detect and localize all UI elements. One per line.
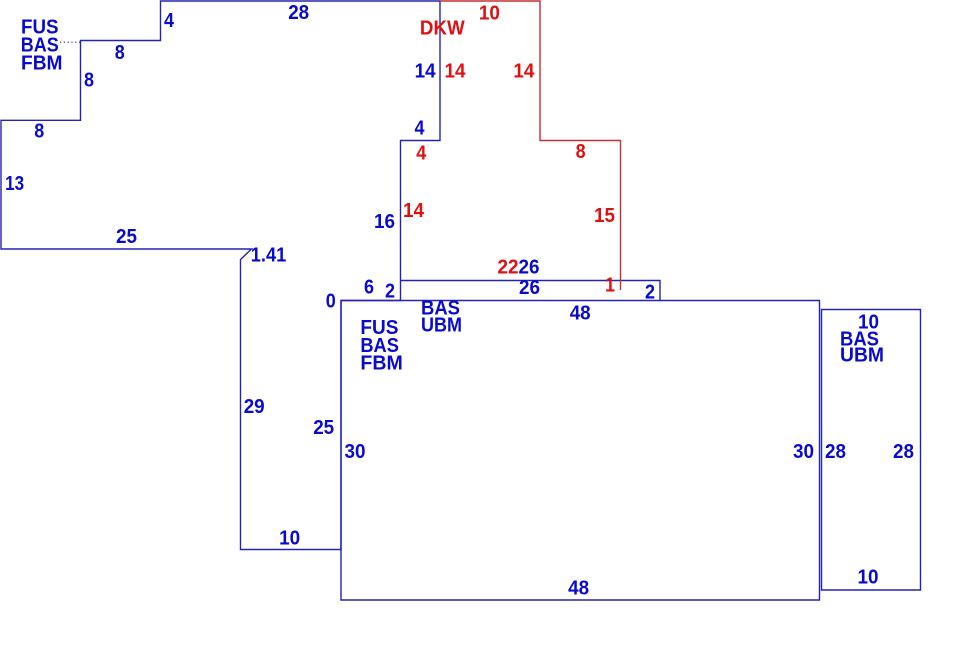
svg-text:10: 10 [479, 2, 500, 24]
svg-text:25: 25 [313, 417, 334, 439]
dotted leader line from BAS text to corner [60, 41, 80, 43]
svg-text:30: 30 [345, 441, 366, 463]
area outline FUS/BAS/FBM irregular polygon [1, 1, 440, 550]
area outline strip BAS/UBM 26x2 [401, 281, 661, 301]
svg-text:29: 29 [244, 396, 265, 418]
svg-text:14: 14 [445, 61, 467, 83]
svg-text:8: 8 [576, 141, 586, 163]
svg-text:28: 28 [825, 441, 846, 463]
svg-text:48: 48 [570, 303, 591, 325]
area outline big rectangle FUS/BAS/FBM 48x30 [341, 301, 820, 601]
area outline red DKW deck [440, 1, 621, 290]
svg-text:4: 4 [415, 118, 426, 140]
svg-text:16: 16 [374, 211, 395, 233]
svg-text:4: 4 [164, 10, 175, 32]
svg-text:6: 6 [364, 277, 374, 299]
svg-text:15: 15 [594, 205, 615, 227]
svg-text:8: 8 [34, 121, 44, 143]
area outline right rectangle BAS/UBM 10x28 [822, 310, 921, 591]
svg-text:13: 13 [5, 173, 24, 195]
svg-text:30: 30 [793, 441, 814, 463]
svg-text:4: 4 [416, 143, 427, 165]
svg-text:FBM: FBM [21, 53, 63, 75]
svg-text:1.41: 1.41 [251, 245, 287, 267]
svg-text:14: 14 [403, 200, 425, 222]
svg-text:28: 28 [893, 441, 914, 463]
svg-text:10: 10 [279, 528, 300, 550]
svg-text:FBM: FBM [360, 352, 402, 374]
svg-text:UBM: UBM [421, 315, 462, 337]
svg-text:8: 8 [84, 70, 94, 92]
svg-text:14: 14 [415, 61, 437, 83]
svg-text:1: 1 [605, 275, 615, 297]
svg-text:DKW: DKW [420, 17, 465, 39]
svg-text:22: 22 [498, 257, 519, 279]
svg-text:2: 2 [385, 281, 395, 303]
svg-text:26: 26 [519, 277, 540, 299]
svg-text:8: 8 [115, 42, 125, 64]
svg-text:0: 0 [326, 291, 336, 313]
svg-text:2: 2 [645, 282, 655, 304]
svg-text:26: 26 [519, 257, 540, 279]
svg-text:UBM: UBM [840, 345, 884, 367]
svg-text:14: 14 [513, 61, 535, 83]
svg-text:10: 10 [858, 567, 879, 589]
svg-text:28: 28 [288, 2, 309, 24]
svg-text:25: 25 [116, 226, 137, 248]
svg-text:48: 48 [568, 578, 589, 600]
